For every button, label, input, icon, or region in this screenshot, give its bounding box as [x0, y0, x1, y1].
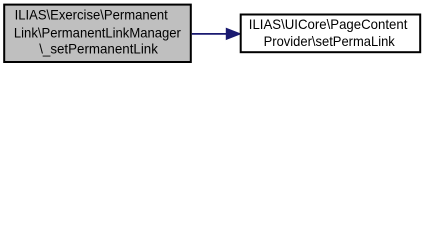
- edge arrowhead: [226, 28, 240, 39]
- svg-text:\_setPermanentLink: \_setPermanentLink: [39, 41, 158, 56]
- svg-text:ILIAS\UICore\PageContent: ILIAS\UICore\PageContent: [249, 17, 408, 32]
- svg-text:Link\PermanentLinkManager: Link\PermanentLinkManager: [14, 26, 181, 41]
- edge wire: caller -> callee (midnightblue): [192, 33, 228, 35]
- svg-text:ILIAS\Exercise\Permanent: ILIAS\Exercise\Permanent: [15, 8, 168, 23]
- svg-text:Provider\setPermaLink: Provider\setPermaLink: [264, 34, 395, 49]
- node box: ILIAS\UICore\PageContentProvider\setPermaLink (white): [241, 15, 421, 53]
- node box: ILIAS\Exercise\PermanentLink\PermanentLinkManager\_setPermanentLink (current, grey): [4, 5, 191, 62]
